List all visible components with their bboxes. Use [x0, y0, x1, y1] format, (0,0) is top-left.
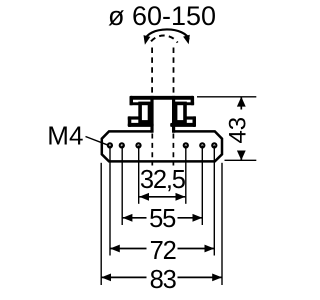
left block: notch top stroke [130, 102, 141, 105]
svg-text:ø 60-150: ø 60-150 [108, 1, 216, 31]
base plate outline [102, 131, 222, 161]
dim line [240, 97, 242, 161]
hole 4 [184, 143, 188, 147]
dashed slot line right (in plate) [172, 134, 174, 166]
dashed pipe arc [150, 36, 178, 43]
svg-text:43: 43 [224, 117, 251, 144]
arc arrowhead left [144, 35, 151, 45]
ext line hole 4 [185, 145, 187, 203]
hole 5 [200, 143, 204, 147]
svg-text:83: 83 [150, 266, 177, 294]
extension lines below plate [101, 145, 222, 285]
ext line hole 1 [109, 145, 111, 255]
svg-text:32,5: 32,5 [140, 166, 186, 194]
dimension 55 [123, 205, 203, 233]
ext line hole 6 [213, 145, 215, 255]
svg-text:72: 72 [150, 237, 176, 265]
right block: channel wall [172, 96, 175, 133]
ext line hole 5 [201, 145, 203, 225]
arrow up [237, 97, 246, 107]
dashed strap line right (upper) [173, 48, 175, 96]
hole 1 (M4) [108, 143, 112, 147]
ext line plate left edge [100, 163, 102, 285]
left block: left stub [130, 96, 134, 105]
ext line plate right edge [221, 163, 223, 285]
ext line hole 2 [121, 145, 123, 225]
dimension 83 [101, 266, 222, 294]
right block: bottom flange [170, 123, 196, 127]
dimension 72 [110, 237, 214, 265]
dimension 32,5 [139, 166, 186, 201]
arrow down [237, 151, 246, 161]
dimension arc (clamp range indicator) [145, 29, 188, 39]
leader line M4 to hole 1 [86, 137, 108, 145]
dashed strap line left (upper) [151, 48, 153, 96]
left block: inner slot frame [140, 103, 149, 122]
hole 3 [136, 143, 140, 147]
right block: right stub [191, 96, 195, 105]
svg-text:M4: M4 [47, 120, 83, 150]
arc arrowhead right [183, 35, 190, 45]
right block: notch bottom stroke [184, 116, 196, 119]
dimension 43 (vertical, right side) [197, 97, 256, 161]
dashed slot line left (in plate) [151, 134, 153, 166]
white gap for text [231, 110, 249, 151]
right block: lip riser [193, 116, 197, 127]
left block: channel wall [150, 96, 153, 133]
svg-text:55: 55 [149, 205, 176, 233]
ext line top (from rail top) [197, 96, 256, 98]
left block: bottom flange [128, 123, 154, 127]
right block: inner slot frame [176, 103, 185, 122]
left block: notch bottom stroke [128, 116, 140, 119]
hole 2 [120, 143, 124, 147]
hole 6 [212, 143, 216, 147]
ext line bottom (from plate bottom) [225, 159, 257, 161]
right block: notch top stroke [184, 102, 194, 105]
left block: lip riser [128, 116, 132, 127]
ext line hole 3 [138, 145, 140, 203]
rail piece: top bridge bar [130, 96, 194, 100]
